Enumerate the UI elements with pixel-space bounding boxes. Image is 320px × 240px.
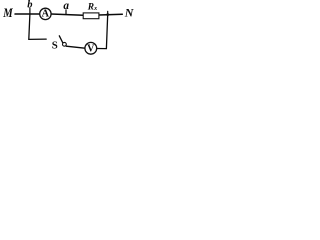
- svg-text:S: S: [52, 40, 58, 52]
- svg-text:V: V: [87, 44, 95, 55]
- svg-text:a: a: [63, 0, 69, 12]
- svg-text:b: b: [27, 0, 32, 11]
- svg-text:N: N: [124, 6, 135, 20]
- svg-text:M: M: [2, 6, 13, 20]
- svg-text:A: A: [42, 9, 50, 20]
